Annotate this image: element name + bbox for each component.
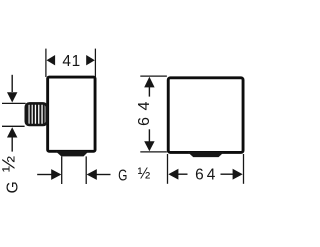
svg-text:G: G <box>118 167 127 184</box>
outlet tube right wall <box>85 156 87 184</box>
bottom outlet dim arrow pointing right <box>51 169 61 180</box>
svg-text:4: 4 <box>207 167 216 184</box>
dim 64 horizontal leader left <box>178 173 188 175</box>
thread stripe 3 <box>36 104 38 125</box>
svg-text:G: G <box>4 181 21 193</box>
svg-text:½: ½ <box>0 156 18 172</box>
thread stripe 2 <box>33 104 35 125</box>
svg-text:4: 4 <box>136 101 153 110</box>
thread dim leader line top <box>11 75 13 92</box>
dim 64 horizontal leader right <box>221 173 234 175</box>
svg-text:½: ½ <box>138 165 151 182</box>
thread stripe 1 <box>30 104 32 125</box>
thread dim extension line top <box>2 102 26 104</box>
dim 41 extension line right <box>94 49 96 78</box>
dim 64 vertical extension bottom <box>140 151 167 153</box>
bottom outlet dim arrow pointing left <box>87 169 97 180</box>
dim 64 horizontal arrow pointing right <box>233 169 243 180</box>
front view bottom flange <box>188 152 224 157</box>
svg-text:1: 1 <box>72 53 81 70</box>
thread dim leader line bottom <box>11 137 13 152</box>
svg-text:6: 6 <box>136 117 153 126</box>
side view bottom flange <box>56 151 89 156</box>
dim 64 horizontal extension right <box>243 154 245 184</box>
thread dim arrow down <box>7 92 17 102</box>
dim 64 vertical arrow down <box>144 141 154 151</box>
dim 64 horizontal extension left <box>167 154 169 184</box>
dim 64 vertical arrow up <box>144 77 154 88</box>
bottom outlet dim leader left <box>37 174 52 176</box>
svg-text:4: 4 <box>62 53 71 70</box>
thread left cap <box>26 104 29 126</box>
side view body <box>48 77 95 151</box>
thread stripe 4 <box>39 104 41 125</box>
dim 64 vertical line lower segment <box>148 129 150 142</box>
dim 64 vertical extension top <box>140 75 167 77</box>
threaded nipple G1/2 (hatched) <box>26 103 47 125</box>
thread stripe 5 <box>43 104 45 125</box>
dim 41 arrow right <box>86 55 95 65</box>
outlet tube left wall <box>61 156 63 184</box>
thread dim extension line bottom <box>2 125 25 127</box>
bottom outlet dim leader right <box>96 174 111 176</box>
dim 41 extension line left <box>45 49 47 77</box>
dim 64 vertical line upper segment <box>148 87 150 97</box>
dim 41 arrow left <box>47 55 56 65</box>
svg-text:6: 6 <box>195 167 204 184</box>
dim 64 horizontal arrow pointing left <box>168 169 178 180</box>
thread dim arrow up <box>7 127 17 137</box>
front view square plate <box>168 78 243 153</box>
